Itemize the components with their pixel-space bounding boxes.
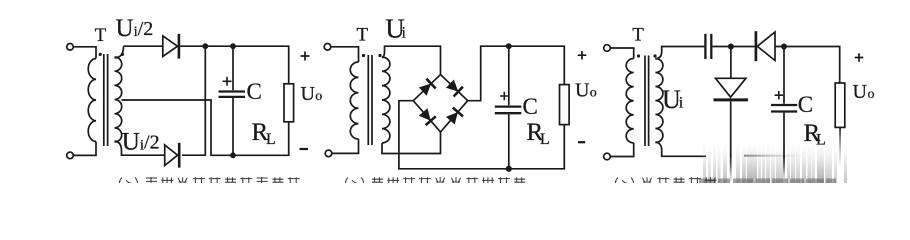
svg-text:L: L [266, 131, 276, 148]
svg-text:U: U [575, 80, 590, 102]
caption (c) voltage doubler rectifier circuit [616, 177, 717, 183]
resistor RL (a) [284, 84, 294, 122]
svg-text:o: o [315, 89, 322, 104]
wire RL branch fading tail (c) [839, 127, 841, 165]
diode bridge D3 bottom-left (b) [419, 108, 431, 121]
svg-text:L: L [540, 131, 550, 148]
transformer T phase dot secondary (a) [121, 53, 124, 56]
diode D1 (a) [163, 36, 178, 57]
svg-text:C: C [798, 92, 813, 117]
transformer T phase dot primary (a) [99, 53, 102, 56]
diode bridge D4 bottom-right (b) [446, 112, 458, 125]
diode D1 shunt (c) [716, 78, 746, 97]
wire secondary top lead (a) [115, 46, 124, 58]
caption (b) bridge rectifier capacitor filter circuit [346, 177, 526, 183]
transformer T primary winding (b) [350, 62, 358, 139]
wire C1 to D2 (c) [712, 46, 754, 48]
capacitor C polarity plus (a) [223, 77, 232, 86]
node junction dot C-bottom (b) [506, 166, 512, 172]
svg-text:T: T [632, 25, 644, 46]
node input terminal top-left (b) [324, 44, 331, 51]
capacitor C branch top wire (a) [232, 46, 234, 90]
transformer T core (a) [104, 54, 108, 146]
wire D1 branch down (c) [730, 47, 732, 79]
svg-text:T: T [95, 25, 107, 46]
svg-text:i: i [402, 24, 407, 41]
resistor RL (b) [560, 85, 570, 125]
node junction dot D1-branch (c) [728, 44, 734, 50]
capacitor C plates (b) [495, 105, 522, 107]
capacitor C2 polarity plus (c) [775, 91, 783, 99]
transformer T primary winding (c) [626, 59, 634, 143]
wire secondary bottom lead (a) [115, 141, 165, 155]
wire input bottom to primary (a) [73, 142, 96, 156]
wire top rail D1 to RL (a) [180, 46, 289, 84]
svg-text:U: U [301, 83, 316, 105]
capacitor C plates (a) [219, 90, 246, 92]
capacitor C2 plates (c) [771, 104, 797, 106]
node junction dot C-top (b) [506, 43, 512, 49]
diode bridge D2 top-right (b) [446, 80, 458, 92]
wire bridge edges (b) [413, 75, 467, 133]
capacitor C branch bottom wire (b) [508, 115, 510, 169]
node junction dot C2-top (c) [781, 44, 787, 50]
wire bottom rail fading (c) [706, 155, 745, 157]
caption (a) full-wave rectifier capacitor filter circuit [120, 177, 300, 183]
transformer T phase dot primary (b) [362, 54, 365, 57]
capacitor C1 series plates (c) [704, 34, 706, 59]
capacitor C branch top wire (b) [508, 46, 510, 105]
watermark smear streaks [699, 143, 847, 183]
node junction dot C-bottom (a) [230, 152, 236, 158]
node input terminal bottom-left (a) [67, 152, 74, 159]
svg-text:o: o [590, 86, 597, 101]
transformer T secondary winding (b) [382, 57, 390, 143]
node input terminal top-left (a) [67, 44, 74, 51]
wire top rail to D1 (a) [124, 45, 163, 47]
svg-text:C: C [247, 79, 262, 104]
wire secondary bottom rail (c) [655, 142, 706, 156]
capacitor C polarity plus (b) [500, 92, 509, 101]
wire D2 up to top rail (a) [182, 46, 205, 155]
transformer T phase dot secondary (c) [653, 54, 656, 57]
transformer T primary winding (a) [88, 59, 96, 142]
resistor RL (c) [835, 83, 845, 127]
wire input top to primary (a) [73, 47, 96, 59]
transformer T core (c) [645, 56, 649, 147]
wire input bottom to primary (b) [332, 139, 359, 153]
wire input top to primary (c) [610, 48, 633, 59]
node junction dot D2-join (a) [202, 43, 208, 49]
node input terminal bottom-left (c) [604, 153, 611, 160]
transformer T phase dot primary (c) [637, 54, 640, 57]
diode D2 (a) [165, 145, 178, 166]
wire D2 to RL (c) [775, 47, 840, 84]
wire input bottom to primary (c) [610, 143, 633, 157]
node input terminal bottom-left (b) [325, 150, 332, 157]
transformer T secondary winding (a) [115, 57, 122, 142]
svg-text:o: o [868, 87, 875, 102]
label plus output (a) [301, 52, 310, 61]
svg-text:i: i [679, 95, 684, 112]
diode D2 series (c) [755, 31, 758, 61]
wire C2 branch fading tail (c) [783, 113, 785, 157]
transformer T secondary winding (c) [655, 59, 663, 143]
wire input top to primary (b) [331, 47, 359, 62]
transformer T phase dot secondary (b) [378, 54, 381, 57]
wire bridge left vertex to bottom rail (b) [399, 101, 564, 169]
wire D1 branch fading tail (c) [730, 102, 732, 157]
capacitor C2 branch top wire (c) [783, 47, 785, 104]
capacitor C branch bottom wire (a) [232, 98, 234, 155]
label plus output (b) [578, 51, 587, 60]
node input terminal top-left (c) [604, 45, 611, 52]
transformer T core (b) [368, 55, 372, 145]
label plus output (c) [855, 53, 864, 62]
wire bridge right vertex to top rail (b) [468, 46, 565, 100]
label minus output (a) [300, 148, 309, 150]
wire center tap to bottom rail (a) [122, 100, 289, 155]
wire secondary top to bridge top (b) [382, 46, 441, 74]
svg-text:C: C [523, 94, 538, 119]
wire secondary bottom to bridge bottom (b) [382, 132, 441, 154]
diode bridge D1 top-left (b) [419, 84, 431, 96]
label minus output (b) [578, 141, 585, 143]
svg-text:U: U [853, 81, 868, 103]
wire secondary top lead to C1 (c) [655, 47, 704, 60]
svg-text:T: T [356, 25, 368, 46]
node junction dot C-top (a) [230, 43, 236, 49]
